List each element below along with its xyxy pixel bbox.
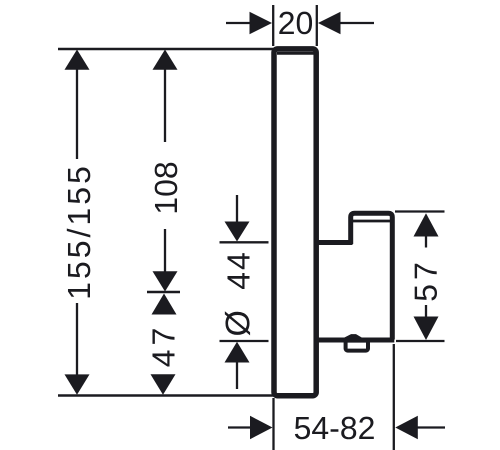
dim 57: bottom extension line: [396, 340, 445, 342]
label 20: [279, 12, 312, 35]
dim 57: top extension line: [395, 210, 445, 212]
dim 155/155 line upper stub: [76, 69, 78, 159]
dim Ø44: upper stub: [236, 195, 238, 224]
dim 155/155 line lower stub: [76, 303, 78, 375]
handle body top edge: [316, 240, 353, 245]
top extension line (wall top): [58, 48, 274, 50]
dim 54-82: right arrowhead: [395, 416, 418, 439]
dim 20: right arrow tail: [339, 22, 374, 24]
dim 20: left arrowhead: [250, 12, 273, 34]
centerline tick between 108 and 47: [147, 291, 180, 294]
dim 108 line upper stub: [164, 69, 166, 142]
dim Ø44: bottom arrowhead (points up): [225, 342, 250, 363]
dim 47: top arrowhead: [152, 294, 177, 315]
label 57 (rotated): [415, 264, 437, 301]
dim 20: left extension line: [272, 5, 274, 46]
dim 54-82: right extension line: [393, 344, 395, 450]
plate top inner edge line: [277, 52, 314, 55]
dim 155/155: bottom arrowhead: [65, 374, 90, 394]
label 44 (rotated): [227, 253, 249, 289]
dim 54-82: right arrow tail: [415, 426, 445, 428]
dim 57: upper stub: [425, 236, 427, 248]
label 47 (rotated): [152, 329, 174, 366]
handle cap (top step): [351, 213, 393, 339]
handle bottom bump profile: [344, 336, 363, 340]
dim 54-82: left arrowhead: [250, 416, 273, 439]
dim Ø44: top extension line: [220, 241, 269, 243]
dim 54-82: left extension line: [272, 398, 274, 450]
dim Ø44: bottom extension line: [220, 340, 269, 342]
bottom extension line (wall bottom): [58, 394, 274, 396]
handle cap inner line: [350, 220, 394, 223]
dim 57: bottom arrowhead: [414, 317, 439, 341]
dim 155/155: top arrowhead: [65, 50, 90, 70]
dim 108: top arrowhead: [153, 50, 178, 70]
dim Ø44: top arrowhead (points down): [225, 222, 250, 242]
dim 57: top arrowhead: [414, 213, 439, 236]
label Ø (rotated): [225, 311, 250, 335]
label 155/155 (rotated): [67, 168, 91, 298]
dim 20: right arrowhead: [318, 12, 341, 34]
escutcheon plate: [274, 49, 316, 396]
dim 54-82: left arrow tail: [228, 426, 253, 428]
dim 47: bottom arrowhead: [151, 374, 176, 395]
dim 108: bottom arrowhead: [153, 271, 178, 291]
dim 108 line lower stub: [164, 229, 166, 272]
handle bottom tab: [346, 341, 368, 351]
dim 57: lower stub: [425, 305, 427, 317]
label 54-82: [295, 417, 374, 440]
handle body bottom edge: [316, 338, 394, 343]
label 108 (rotated): [155, 163, 178, 213]
dim Ø44: lower stub: [236, 362, 238, 389]
dim 20: left arrow tail: [226, 22, 252, 24]
dim 20: right extension line: [316, 5, 318, 46]
